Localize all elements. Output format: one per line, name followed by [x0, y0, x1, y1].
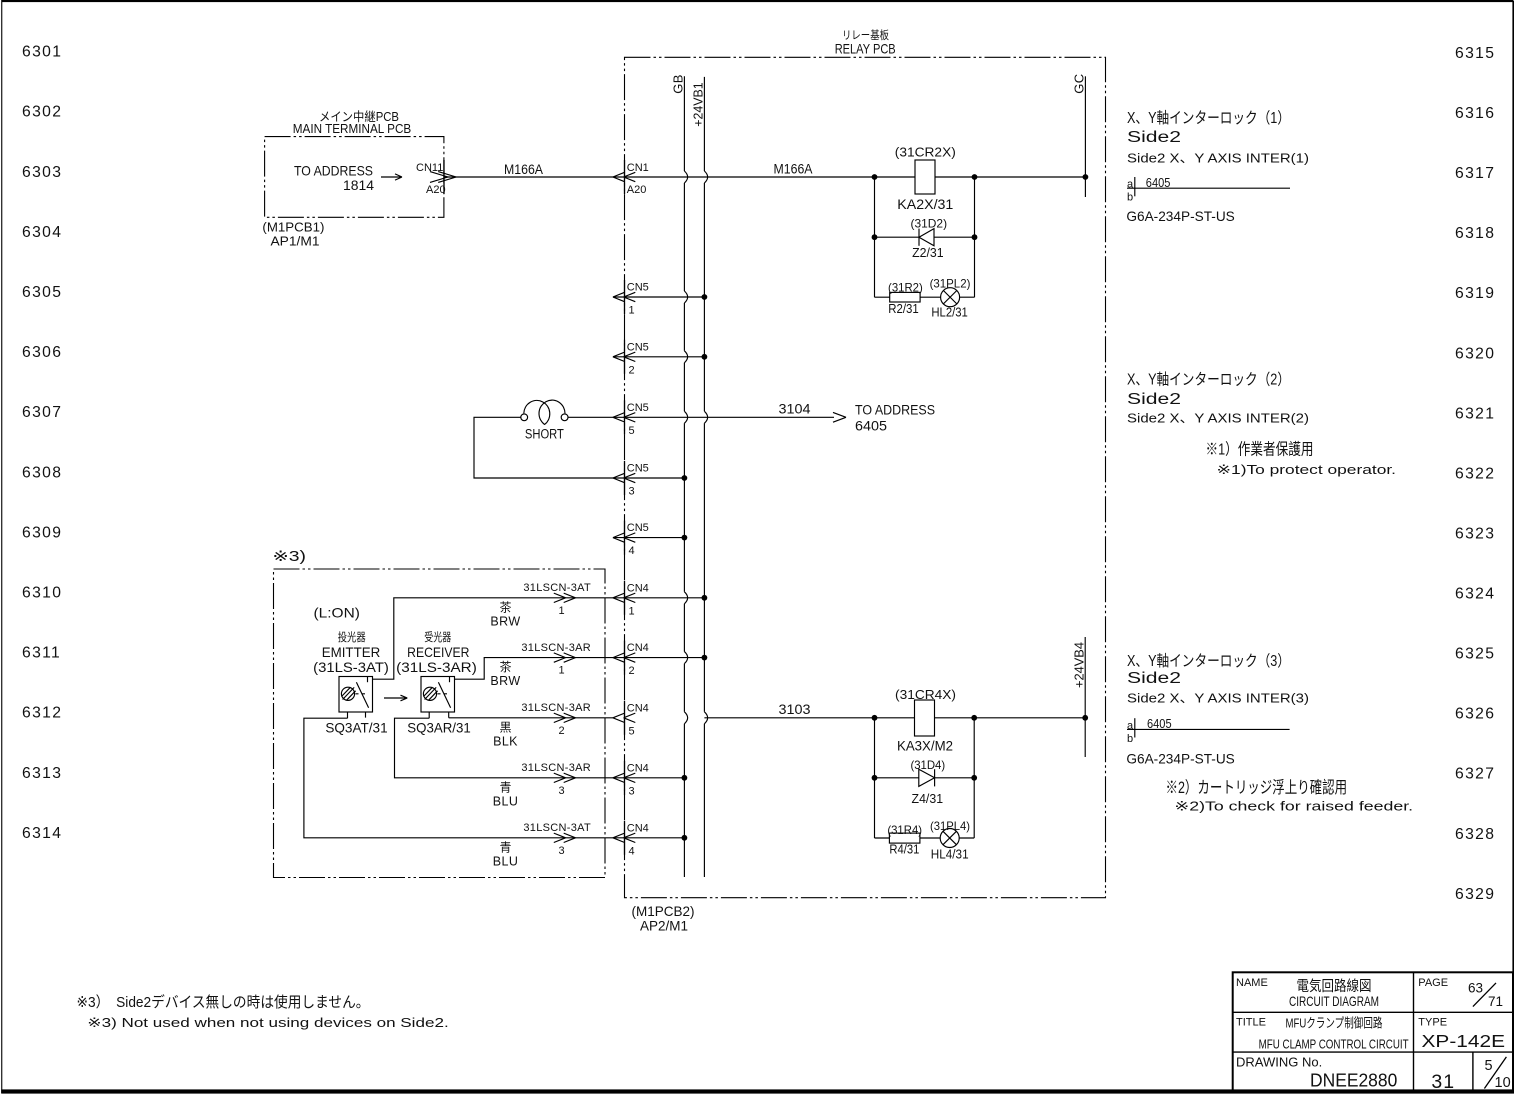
svg-text:GC: GC	[1072, 73, 1087, 94]
svg-text:M166A: M166A	[774, 162, 814, 177]
svg-text:1: 1	[629, 305, 635, 317]
svg-text:(L:ON): (L:ON)	[314, 605, 360, 620]
svg-text:1814: 1814	[343, 178, 374, 193]
receiver sensor SQ3AR/31 (31LS-3AR)	[396, 630, 477, 736]
wire row 6303 relay section	[875, 176, 1086, 178]
junction dot row 6303 on GC	[1083, 174, 1089, 180]
svg-text:3104: 3104	[779, 402, 812, 417]
svg-text:6315: 6315	[1455, 45, 1495, 62]
wire M166A inside relay PCB (row 6303)	[613, 176, 875, 178]
svg-text:6327: 6327	[1455, 766, 1495, 783]
svg-text:6321: 6321	[1455, 405, 1495, 422]
svg-text:G6A-234P-ST-US: G6A-234P-ST-US	[1126, 752, 1234, 767]
svg-text:CN4: CN4	[627, 702, 649, 714]
svg-text:Side2 X、Y AXIS INTER(1): Side2 X、Y AXIS INTER(1)	[1127, 151, 1309, 166]
connector CN5 pin4 (row 6309)	[613, 521, 649, 558]
wire resistor/lamp row (row 6314 level)	[875, 837, 975, 839]
title block DRAWING No. cell	[1236, 1054, 1511, 1093]
svg-text:R4/31: R4/31	[889, 841, 919, 856]
annotation block X,Y axis interlock (1)	[1127, 109, 1309, 165]
contact a/b 6405 symbol (block 3)	[1127, 717, 1290, 745]
svg-text:HL4/31: HL4/31	[931, 846, 969, 861]
junction dot diode row left (relay2)	[872, 775, 878, 781]
svg-text:HL2/31: HL2/31	[931, 305, 968, 320]
title block PAGE cell	[1418, 977, 1503, 1009]
svg-text:M166A: M166A	[504, 162, 544, 177]
net +24VB4 vertical line	[1071, 637, 1086, 757]
arrow emitter to receiver	[384, 695, 407, 701]
GB bus hop arcs at wire crossings (rows 6303,6305,6306,6307,6310,6311,6312)	[684, 171, 687, 724]
svg-text:5: 5	[1485, 1058, 1493, 1074]
svg-text:2: 2	[559, 725, 565, 737]
svg-text:31LSCN-3AT: 31LSCN-3AT	[523, 582, 591, 594]
junction dot row 6311 on +24VB1	[702, 655, 708, 661]
svg-text:NAME: NAME	[1236, 977, 1268, 989]
svg-text:3: 3	[629, 486, 635, 498]
svg-text:R2/31: R2/31	[888, 301, 919, 316]
svg-text:Z4/31: Z4/31	[912, 791, 944, 806]
cable connector 31LSCN-3AT/3 (male, row 6314)	[493, 822, 591, 868]
svg-text:CN1: CN1	[627, 162, 649, 174]
svg-text:DNEE2880: DNEE2880	[1310, 1071, 1397, 1091]
svg-text:Side2: Side2	[1127, 391, 1181, 408]
MAIN TERMINAL PCB box (M1PCB1)	[262, 109, 444, 248]
right line-number column 6315-6329	[1455, 45, 1495, 903]
svg-text:(31PL4): (31PL4)	[930, 819, 970, 833]
svg-text:※1）作業者保護用: ※1）作業者保護用	[1206, 440, 1314, 458]
svg-text:71: 71	[1488, 994, 1503, 1009]
svg-text:CN11: CN11	[416, 162, 443, 174]
cable connector 31LSCN-3AR/3 (male, row 6313)	[493, 762, 591, 808]
wire CN4/2 to +24VB1 (row 6311)	[613, 657, 704, 659]
svg-text:GB: GB	[671, 74, 686, 94]
svg-text:3: 3	[629, 785, 635, 797]
svg-text:10: 10	[1495, 1075, 1511, 1091]
cable connector 31LSCN-3AT/1 (male, row 6310)	[490, 582, 591, 628]
svg-text:XP-142E: XP-142E	[1422, 1031, 1506, 1051]
svg-text:青: 青	[499, 840, 511, 854]
svg-text:CN5: CN5	[627, 341, 649, 353]
connector CN1/A20 (female, relay PCB edge, row 6303)	[613, 160, 649, 196]
svg-text:31: 31	[1431, 1071, 1455, 1093]
svg-text:PAGE: PAGE	[1418, 977, 1448, 989]
svg-text:Side2: Side2	[1127, 129, 1181, 146]
svg-text:黒: 黒	[499, 720, 511, 734]
svg-text:CN5: CN5	[627, 463, 649, 475]
junction dot diode row left	[872, 234, 878, 240]
svg-text:(31D2): (31D2)	[911, 216, 948, 230]
svg-text:(31CR4X): (31CR4X)	[895, 687, 956, 702]
annotation block X,Y axis interlock (2)	[1127, 371, 1309, 426]
svg-text:TYPE: TYPE	[1418, 1017, 1447, 1029]
svg-text:(31PL2): (31PL2)	[930, 277, 971, 291]
svg-text:6405: 6405	[855, 419, 887, 434]
wire CN5/2 to +24VB1 (row 6306)	[613, 356, 704, 358]
svg-text:SQ3AT/31: SQ3AT/31	[325, 721, 387, 736]
svg-text:KA2X/31: KA2X/31	[897, 197, 953, 212]
svg-text:6320: 6320	[1455, 345, 1495, 362]
svg-text:Side2 X、Y AXIS INTER(3): Side2 X、Y AXIS INTER(3)	[1127, 691, 1309, 706]
svg-text:MAIN TERMINAL PCB: MAIN TERMINAL PCB	[293, 121, 412, 136]
junction dot row 6310 on +24VB1	[702, 595, 708, 601]
bus GB (vertical)	[671, 74, 686, 877]
svg-text:b: b	[1127, 733, 1133, 745]
svg-text:A20: A20	[426, 184, 446, 196]
svg-text:6328: 6328	[1455, 826, 1495, 843]
svg-text:2: 2	[629, 665, 635, 677]
relay branch rails (31CR4X group)	[875, 718, 975, 838]
junction dot node left (row 6303)	[872, 174, 878, 180]
cable connector 31LSCN-3AR/1 (male, row 6311)	[490, 642, 591, 688]
relay coil 31CR2X	[895, 144, 956, 212]
wire CN4/4 to GB (row 6314)	[613, 837, 684, 839]
svg-text:CN5: CN5	[627, 402, 649, 414]
svg-text:AP1/M1: AP1/M1	[271, 233, 320, 248]
svg-text:1: 1	[559, 665, 565, 677]
wire emitter brown to row 6310	[373, 598, 614, 679]
svg-text:BLU: BLU	[493, 854, 519, 868]
svg-text:3: 3	[559, 785, 565, 797]
svg-text:BRW: BRW	[490, 674, 520, 688]
svg-text:4: 4	[629, 845, 635, 857]
svg-text:BRW: BRW	[490, 614, 520, 628]
svg-text:(31R4): (31R4)	[887, 823, 922, 837]
+24VB1 bus hop arcs at wire crossings (rows 6303,6307,6312)	[704, 171, 707, 724]
svg-text:※2)To check for raised feeder.: ※2)To check for raised feeder.	[1174, 798, 1413, 813]
svg-text:a: a	[1127, 720, 1134, 732]
svg-text:a: a	[1127, 179, 1134, 191]
connector CN11/A20 (male, on M1PCB1 edge)	[416, 160, 456, 196]
bottom note ※3 Side2 devices	[77, 993, 449, 1030]
junction dot node right (row 6303)	[972, 174, 978, 180]
svg-text:受光器: 受光器	[424, 630, 451, 644]
svg-text:31LSCN-3AR: 31LSCN-3AR	[521, 642, 591, 654]
svg-text:6310: 6310	[22, 585, 62, 602]
svg-text:1: 1	[629, 605, 635, 617]
diode 31D4 (Z4/31, cathode right)	[910, 758, 945, 806]
wire CN4/1 to +24VB1 (row 6310)	[613, 597, 704, 599]
connector CN5 pin2 (row 6306)	[613, 340, 649, 377]
svg-text:6314: 6314	[22, 825, 62, 842]
connector CN5 pin5 (row 6307)	[613, 400, 649, 437]
junction dot row 6312 on +24VB4	[1082, 715, 1088, 721]
svg-text:SQ3AR/31: SQ3AR/31	[407, 721, 471, 736]
svg-text:SHORT: SHORT	[525, 426, 564, 441]
RELAY PCB box (M1PCB2)	[625, 28, 1106, 933]
svg-text:6302: 6302	[22, 104, 62, 121]
connector CN4 pin1 (row 6310)	[613, 581, 649, 618]
svg-text:6307: 6307	[22, 404, 62, 421]
relay branch rails (31CR2X group)	[875, 177, 975, 297]
svg-text:63: 63	[1468, 981, 1483, 996]
svg-text:(31LS-3AT): (31LS-3AT)	[313, 660, 389, 675]
svg-text:6311: 6311	[22, 645, 61, 662]
svg-text:茶: 茶	[499, 659, 511, 674]
svg-text:CN4: CN4	[627, 762, 649, 774]
svg-text:RELAY PCB: RELAY PCB	[835, 42, 896, 57]
svg-text:TITLE: TITLE	[1236, 1017, 1266, 1029]
svg-text:6326: 6326	[1455, 706, 1495, 723]
svg-text:31LSCN-3AT: 31LSCN-3AT	[523, 822, 591, 834]
junction dot diode row right (relay2)	[971, 775, 977, 781]
svg-text:6303: 6303	[22, 164, 62, 181]
svg-text:電気回路線図: 電気回路線図	[1297, 978, 1372, 995]
svg-text:MFUクランプ制御回路: MFUクランプ制御回路	[1286, 1015, 1383, 1030]
svg-text:6306: 6306	[22, 344, 62, 361]
relay coil 31CR4X	[895, 687, 956, 754]
title block NAME cell	[1236, 977, 1379, 1009]
svg-text:Side2: Side2	[1127, 670, 1181, 687]
svg-text:(31LS-3AR): (31LS-3AR)	[396, 660, 477, 675]
svg-text:茶: 茶	[499, 599, 511, 614]
svg-text:(M1PCB1): (M1PCB1)	[262, 220, 324, 235]
wire diode row (row 6313 level)	[875, 777, 975, 779]
svg-text:6325: 6325	[1455, 646, 1495, 663]
lamp 31PL2 (HL2/31)	[930, 277, 971, 320]
wire M166A (external, row 6303)	[444, 176, 613, 178]
connector CN4 pin2 (row 6311)	[613, 641, 649, 678]
resistor 31R4 (R4/31)	[887, 823, 922, 857]
resistor 31R2 (R2/31)	[888, 281, 923, 316]
svg-text:(31CR2X): (31CR2X)	[895, 144, 956, 159]
SHORT jumper symbol	[521, 400, 568, 441]
svg-text:5: 5	[629, 725, 635, 737]
svg-text:X、Y軸インターロック（2）: X、Y軸インターロック（2）	[1127, 371, 1290, 389]
svg-text:3: 3	[559, 845, 565, 857]
svg-text:DRAWING No.: DRAWING No.	[1236, 1054, 1322, 1069]
svg-text:(31D4): (31D4)	[910, 758, 945, 772]
junction dot row 6309 on GB	[682, 535, 688, 541]
wire SHORT loop (rows 6307-6308)	[474, 417, 613, 478]
svg-text:※3) Not used when not using d: ※3) Not used when not using devices on S…	[87, 1015, 448, 1030]
svg-text:CN4: CN4	[627, 582, 649, 594]
junction dot row 6308 on GB	[682, 475, 688, 481]
svg-text:※3） Side2デバイス無しの時は使用しません。: ※3） Side2デバイス無しの時は使用しません。	[77, 993, 370, 1011]
svg-text:Z2/31: Z2/31	[912, 245, 944, 260]
title block	[1233, 972, 1513, 1091]
wire CN5/3 to GB (row 6308)	[613, 477, 684, 479]
arrow inside M1PCB1 box	[381, 174, 402, 180]
svg-text:CIRCUIT DIAGRAM: CIRCUIT DIAGRAM	[1289, 994, 1379, 1009]
svg-text:BLU: BLU	[493, 794, 519, 808]
junction dot diode row right	[972, 234, 978, 240]
connector CN4 pin4 (row 6314)	[613, 821, 649, 858]
junction dot row 6306 on +24VB1	[702, 354, 708, 360]
connector CN5 pin1 (row 6305)	[613, 280, 649, 317]
svg-text:CN5: CN5	[627, 522, 649, 534]
svg-text:31LSCN-3AR: 31LSCN-3AR	[521, 762, 591, 774]
wire CN5/1 to +24VB1 (row 6305)	[613, 296, 704, 298]
svg-text:6304: 6304	[22, 224, 62, 241]
svg-text:※1)To protect operator.: ※1)To protect operator.	[1217, 462, 1397, 477]
diode 31D2 (Z2/31, cathode left)	[911, 216, 948, 260]
svg-text:CN4: CN4	[627, 642, 649, 654]
svg-text:1: 1	[559, 605, 565, 617]
emitter sensor SQ3AT/31 (31LS-3AT)	[313, 630, 389, 736]
svg-text:BLK: BLK	[493, 734, 518, 748]
wire CN4/3 to GB (row 6313)	[613, 777, 684, 779]
svg-text:6308: 6308	[22, 464, 62, 481]
connector CN5 pin3 (row 6308)	[613, 461, 649, 498]
connector CN4 pin5 (row 6312)	[613, 701, 649, 738]
junction dot node left (row 6312)	[872, 715, 878, 721]
wire row 6307 to 3104 arrow	[613, 416, 834, 418]
wire row 6312 relay section (3103)	[704, 717, 1085, 719]
contact a/b 6405 symbol (block 1)	[1127, 176, 1290, 204]
annotation block X,Y axis interlock (3)	[1127, 652, 1309, 706]
svg-text:6405: 6405	[1146, 176, 1171, 190]
title block TITLE cell	[1236, 1015, 1409, 1051]
svg-text:4: 4	[629, 545, 635, 557]
svg-text:TO ADDRESS: TO ADDRESS	[855, 403, 935, 418]
svg-text:TO ADDRESS: TO ADDRESS	[294, 164, 373, 179]
junction dot node right (row 6312)	[971, 715, 977, 721]
svg-text:CN5: CN5	[627, 282, 649, 294]
svg-text:6305: 6305	[22, 284, 62, 301]
note ※3 dashed box (Side2 devices)	[273, 549, 606, 878]
wire receiver black row 6312	[449, 717, 613, 719]
junction dot row 6314 on GB	[682, 835, 688, 841]
svg-text:投光器: 投光器	[338, 630, 366, 644]
svg-text:6322: 6322	[1455, 465, 1495, 482]
svg-text:Side2 X、Y AXIS INTER(2): Side2 X、Y AXIS INTER(2)	[1127, 411, 1309, 426]
svg-text:6319: 6319	[1455, 285, 1495, 302]
svg-text:G6A-234P-ST-US: G6A-234P-ST-US	[1126, 209, 1234, 224]
svg-text:KA3X/M2: KA3X/M2	[897, 738, 953, 753]
svg-text:6309: 6309	[22, 524, 62, 541]
bus +24VB1 (vertical)	[691, 77, 706, 877]
left line-number column 6301-6314	[22, 44, 62, 842]
svg-text:6324: 6324	[1455, 586, 1495, 603]
junction dot row 6313 on GB	[682, 775, 688, 781]
note ※1 operator protection	[1206, 440, 1397, 476]
svg-text:X、Y軸インターロック（3）: X、Y軸インターロック（3）	[1127, 652, 1290, 670]
svg-text:6318: 6318	[1455, 225, 1495, 242]
wire receiver brown to row 6311	[455, 658, 614, 680]
svg-text:6323: 6323	[1455, 526, 1495, 543]
note ※2 cartridge raised check	[1166, 778, 1414, 813]
wire receiver blue to row 6313	[395, 718, 614, 778]
svg-text:リレー基板: リレー基板	[842, 28, 889, 42]
lamp 31PL4 (HL4/31)	[930, 819, 970, 862]
wire CN5/4 to GB (row 6309)	[613, 537, 684, 539]
wire emitter blue to row 6314	[304, 718, 613, 838]
svg-text:6312: 6312	[22, 705, 62, 722]
svg-text:A20: A20	[627, 184, 647, 196]
svg-text:(M1PCB2): (M1PCB2)	[632, 904, 695, 919]
svg-text:+24VB4: +24VB4	[1071, 642, 1086, 688]
svg-text:RECEIVER: RECEIVER	[407, 645, 469, 660]
svg-text:3103: 3103	[779, 702, 811, 717]
svg-text:※3): ※3)	[273, 549, 307, 565]
cable connector 31LSCN-3AR/2 (male, row 6312)	[493, 702, 591, 748]
svg-text:31LSCN-3AR: 31LSCN-3AR	[521, 702, 591, 714]
svg-text:6301: 6301	[22, 44, 62, 61]
svg-text:2: 2	[629, 364, 635, 376]
wire resistor/lamp row (row 6305 level)	[875, 296, 975, 298]
svg-text:6405: 6405	[1147, 717, 1172, 731]
svg-text:6316: 6316	[1455, 105, 1495, 122]
svg-text:青: 青	[499, 780, 511, 794]
svg-text:5: 5	[629, 425, 635, 437]
wire diode row (row 6304 level)	[875, 236, 975, 238]
title block TYPE cell	[1418, 1017, 1505, 1051]
svg-text:AP2/M1: AP2/M1	[640, 919, 688, 934]
arrow head 3104	[833, 412, 846, 422]
svg-text:※2）カートリッジ浮上り確認用: ※2）カートリッジ浮上り確認用	[1166, 778, 1348, 797]
connector CN4 pin3 (row 6313)	[613, 761, 649, 798]
svg-text:+24VB1: +24VB1	[691, 82, 706, 127]
svg-text:6313: 6313	[22, 765, 62, 782]
svg-text:MFU CLAMP CONTROL CIRCUIT: MFU CLAMP CONTROL CIRCUIT	[1259, 1036, 1409, 1051]
svg-text:CN4: CN4	[627, 822, 649, 834]
svg-text:X、Y軸インターロック（1）: X、Y軸インターロック（1）	[1127, 109, 1290, 127]
svg-text:6317: 6317	[1455, 165, 1495, 182]
net GC vertical line	[1072, 73, 1087, 197]
svg-text:6329: 6329	[1455, 886, 1495, 903]
junction dot row 6305 on +24VB1	[702, 294, 708, 300]
svg-text:b: b	[1127, 191, 1133, 203]
svg-text:(31R2): (31R2)	[888, 281, 923, 295]
svg-text:EMITTER: EMITTER	[322, 645, 381, 660]
